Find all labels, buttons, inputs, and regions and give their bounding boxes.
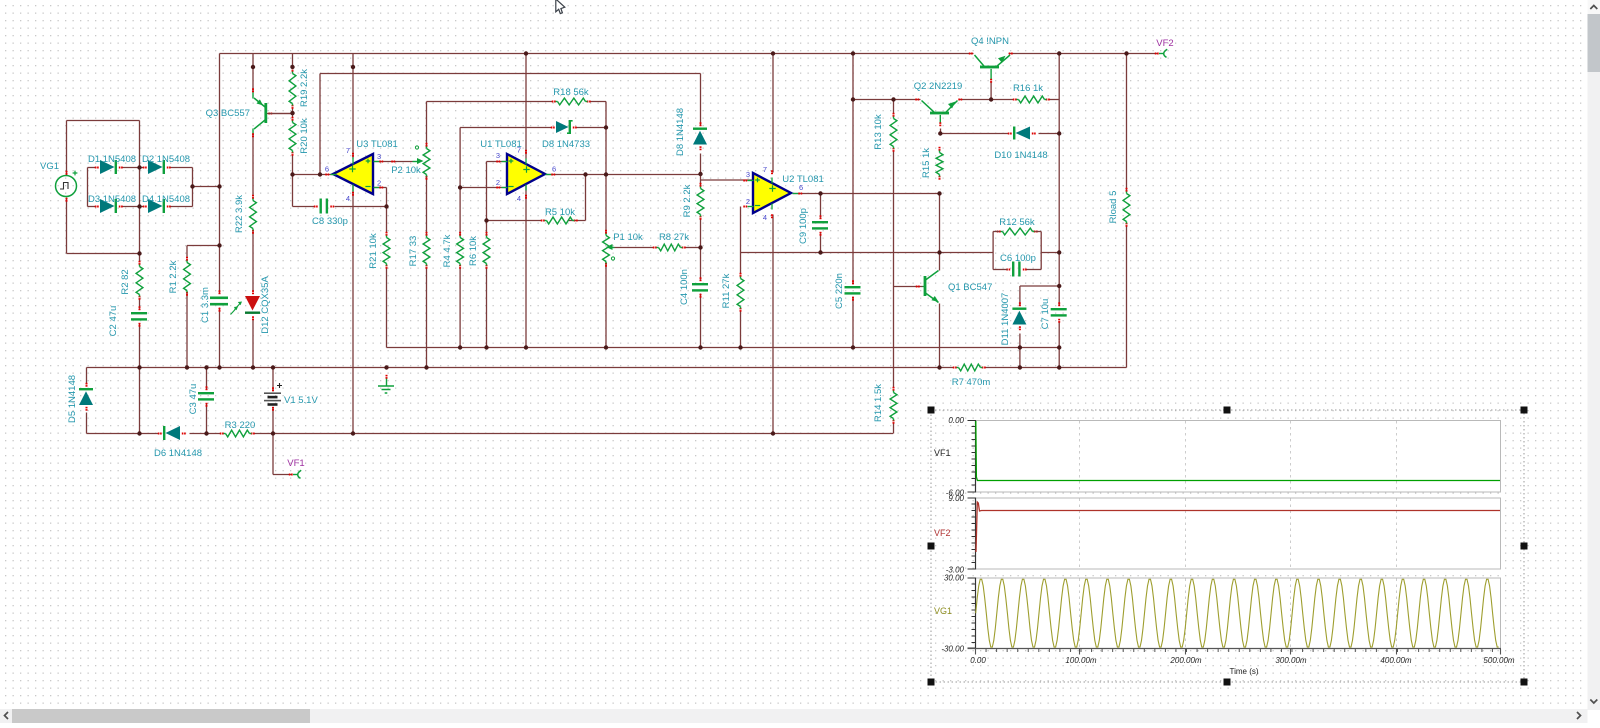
- svg-text:D8 1N4148: D8 1N4148: [675, 108, 686, 156]
- svg-text:R12 56k: R12 56k: [999, 217, 1035, 228]
- svg-text:R14 1.5k: R14 1.5k: [873, 384, 884, 422]
- svg-text:U1 TL081: U1 TL081: [480, 139, 522, 150]
- svg-text:300.00m: 300.00m: [1275, 656, 1306, 665]
- svg-text:D1 1N5408: D1 1N5408: [88, 154, 136, 165]
- svg-text:V1 5.1V: V1 5.1V: [284, 395, 318, 406]
- svg-text:200.00m: 200.00m: [1169, 656, 1201, 665]
- svg-text:R15 1k: R15 1k: [921, 148, 932, 178]
- svg-text:2: 2: [746, 197, 750, 206]
- svg-text:4: 4: [346, 194, 350, 203]
- svg-text:D3 1N5408: D3 1N5408: [88, 194, 136, 205]
- svg-text:C4 100n: C4 100n: [679, 269, 690, 305]
- svg-text:2: 2: [377, 179, 381, 188]
- svg-text:VF1: VF1: [287, 458, 304, 469]
- svg-text:P2 10k: P2 10k: [391, 165, 421, 176]
- svg-text:R3 220: R3 220: [225, 420, 256, 431]
- svg-text:D2 1N5408: D2 1N5408: [142, 154, 190, 165]
- svg-text:R18 56k: R18 56k: [553, 87, 589, 98]
- svg-text:6: 6: [325, 165, 329, 174]
- svg-text:R20 10k: R20 10k: [299, 118, 310, 154]
- svg-text:C6 100p: C6 100p: [1000, 253, 1036, 264]
- svg-text:R6 10k: R6 10k: [468, 236, 479, 266]
- svg-text:C1 3.3m: C1 3.3m: [200, 287, 211, 323]
- svg-text:R7 470m: R7 470m: [952, 377, 991, 388]
- svg-text:R22 3.9k: R22 3.9k: [234, 195, 245, 233]
- svg-text:C7 10u: C7 10u: [1040, 299, 1051, 330]
- svg-text:Q2 2N2219: Q2 2N2219: [914, 81, 963, 92]
- svg-text:R8 27k: R8 27k: [659, 232, 689, 243]
- svg-text:D11 1N4007: D11 1N4007: [1000, 293, 1011, 346]
- svg-text:C3 47u: C3 47u: [188, 384, 199, 415]
- svg-text:VG1: VG1: [934, 606, 952, 616]
- svg-text:6: 6: [552, 165, 556, 174]
- svg-text:400.00m: 400.00m: [1380, 656, 1411, 665]
- svg-text:R16 1k: R16 1k: [1013, 83, 1043, 94]
- svg-text:VF2: VF2: [1156, 38, 1173, 49]
- svg-text:U2 TL081: U2 TL081: [782, 174, 824, 185]
- svg-text:Q4 !NPN: Q4 !NPN: [971, 36, 1009, 47]
- svg-text:R1 2.2k: R1 2.2k: [168, 260, 179, 293]
- svg-text:100.00m: 100.00m: [1065, 656, 1096, 665]
- svg-text:R4 4.7k: R4 4.7k: [442, 234, 453, 267]
- svg-text:Q3 BC557: Q3 BC557: [206, 108, 250, 119]
- svg-text:3: 3: [496, 151, 500, 160]
- svg-text:R17 33: R17 33: [408, 236, 419, 267]
- svg-text:P1 10k: P1 10k: [613, 232, 643, 243]
- svg-text:7: 7: [346, 146, 350, 155]
- svg-text:0.00: 0.00: [948, 416, 964, 425]
- svg-text:2: 2: [496, 178, 500, 187]
- svg-text:D4 1N5408: D4 1N5408: [142, 194, 190, 205]
- svg-text:0.00: 0.00: [970, 656, 986, 665]
- svg-text:9.00: 9.00: [948, 494, 964, 503]
- svg-text:R11 27k: R11 27k: [721, 273, 732, 308]
- svg-text:R19 2.2k: R19 2.2k: [299, 69, 310, 107]
- svg-text:C2 47u: C2 47u: [108, 306, 119, 337]
- svg-text:VF1: VF1: [934, 448, 951, 458]
- svg-text:C5 220n: C5 220n: [834, 273, 845, 309]
- svg-text:D12 CQX35A: D12 CQX35A: [260, 276, 271, 334]
- svg-text:3: 3: [746, 170, 750, 179]
- svg-text:D8 1N4733: D8 1N4733: [542, 139, 590, 150]
- svg-text:500.00m: 500.00m: [1483, 656, 1514, 665]
- svg-text:7: 7: [763, 165, 767, 174]
- svg-text:C8 330p: C8 330p: [312, 216, 348, 227]
- svg-text:4: 4: [763, 213, 767, 222]
- svg-text:VG1: VG1: [40, 161, 59, 172]
- svg-text:D5 1N4148: D5 1N4148: [67, 375, 78, 423]
- svg-text:3: 3: [377, 152, 381, 161]
- svg-text:U3 TL081: U3 TL081: [356, 139, 398, 150]
- svg-text:R21 10k: R21 10k: [368, 233, 379, 269]
- svg-text:C9 100p: C9 100p: [798, 208, 809, 244]
- svg-text:D6 1N4148: D6 1N4148: [154, 448, 202, 459]
- svg-text:Q1 BC547: Q1 BC547: [948, 282, 992, 293]
- svg-text:D10 1N4148: D10 1N4148: [994, 150, 1047, 161]
- svg-text:R5 10k: R5 10k: [545, 207, 575, 218]
- svg-text:4: 4: [517, 194, 521, 203]
- svg-text:Time (s): Time (s): [1229, 667, 1258, 676]
- svg-text:VF2: VF2: [934, 528, 951, 538]
- svg-text:Rload 5: Rload 5: [1108, 191, 1119, 224]
- svg-text:-30.00: -30.00: [941, 645, 964, 654]
- svg-text:30.00: 30.00: [944, 574, 965, 583]
- svg-text:R13 10k: R13 10k: [873, 114, 884, 150]
- svg-text:R2 82: R2 82: [120, 269, 131, 294]
- svg-text:R9 2.2k: R9 2.2k: [682, 184, 693, 217]
